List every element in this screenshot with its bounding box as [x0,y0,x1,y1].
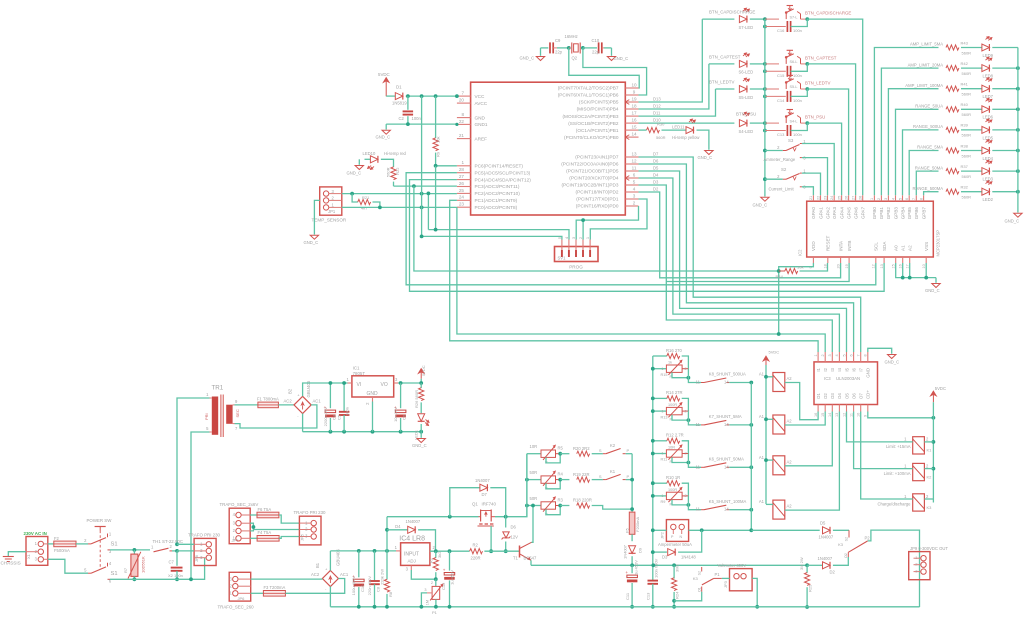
svg-text:C11: C11 [625,592,630,600]
svg-text:5VDC: 5VDC [421,365,426,376]
wire A1 coil K5 [766,503,773,505]
svg-text:GND_C: GND_C [885,360,900,365]
rectifier B1 GBU406 [322,571,338,587]
IC2 pin 6 GPB5 [908,195,910,201]
svg-text:JP3: JP3 [723,580,728,588]
wire trimmer R11 wiper loop [672,457,688,462]
svg-text:(PCINT21/OC0B/T1)PD5: (PCINT21/OC0B/T1)PD5 [566,169,619,174]
IC3 pin 13 O4 [838,405,840,412]
svg-text:I3: I3 [830,367,835,371]
IC2 pin 17 A2 [909,257,911,263]
svg-text:23: 23 [823,196,827,200]
svg-text:15: 15 [892,264,896,268]
wire K6_SHUNT_50MA to shunt output bus [729,466,751,468]
MCU pin 10 (PCINT7/XTAL2/TOSC2)PB7 [625,87,638,89]
power flag 5VDC for shunt relay coils [763,356,769,361]
svg-text:11: 11 [696,507,701,512]
trimmer R13 100R [653,410,667,412]
svg-text:Voltmeter 400V: Voltmeter 400V [718,563,747,568]
fuse F5 F200mA [629,512,635,534]
svg-text:1: 1 [461,160,464,165]
wire net D13 pin19 up to button row1 [639,19,703,102]
svg-text:14: 14 [828,413,832,417]
wire K3b P2 around to JP9 [868,530,920,607]
svg-text:1: 1 [661,452,663,456]
svg-text:I4: I4 [837,367,842,371]
svg-text:O1: O1 [697,587,701,592]
IC4 LR8 regulator [401,543,430,566]
svg-text:C9: C9 [555,38,561,43]
svg-text:1N4007: 1N4007 [406,519,421,524]
svg-text:D1: D1 [396,85,402,90]
svg-text:23: 23 [459,202,465,207]
svg-text:(PCINT19/OC2B/INT1)PD3: (PCINT19/OC2B/INT1)PD3 [561,183,618,188]
svg-text:GND_C: GND_C [347,171,362,176]
svg-text:6: 6 [633,172,636,177]
wire shunt output bus [750,383,752,531]
svg-text:19: 19 [631,96,637,101]
wire S3 pin1 to GPA3 [802,144,834,196]
connector SV1 PROG [555,247,599,262]
IC3 pin 9 CD+ [867,405,869,412]
svg-text:C13: C13 [646,592,651,600]
wire PROG pin1 long line to IC2 INTB [589,228,591,230]
wire PC5 SCL net [406,173,876,285]
svg-text:R8: R8 [388,591,393,597]
svg-text:IRF740: IRF740 [482,502,497,507]
svg-text:P: P [627,448,630,453]
svg-text:26: 26 [459,181,465,186]
svg-text:D9: D9 [638,547,643,553]
svg-text:R25: R25 [808,584,813,592]
LED S6-LED [709,63,735,65]
IC2 pin 7 GPB6 [915,195,917,201]
IC3 pin 8 GND [867,352,869,362]
svg-text:Charge/discharge: Charge/discharge [877,501,911,506]
svg-text:C7: C7 [169,560,175,565]
svg-text:AC1: AC1 [313,399,322,404]
wire R12 to trimmer pin2 [682,441,689,454]
wire trimmer R13 wiper loop [672,415,688,420]
IC3 pin 7 I7 [860,352,862,362]
MCU pin 19 (SCK/PCINT5)PB5 [625,101,638,103]
resistor R26 560R [420,383,422,388]
svg-text:D12: D12 [653,104,661,109]
wire IC3 CD+ pin9 to 5VDC bus [868,412,934,418]
svg-text:I6: I6 [851,367,856,371]
IC3 pin 11 O6 [853,405,855,412]
IC2 pin 21 GPA0 [812,195,814,201]
svg-text:IC4 LR8: IC4 LR8 [399,535,425,542]
resistor R22 560R [381,159,394,167]
svg-text:GND_C: GND_C [925,288,940,293]
resistor R19 22R [560,479,569,481]
capacitor C13 100n [763,129,767,133]
svg-text:14: 14 [631,132,637,137]
wire AMP_LIMIT_20MA to cathode bus [992,67,1018,69]
svg-text:AREF: AREF [475,136,488,141]
svg-text:Q1: Q1 [472,502,478,507]
svg-text:R9: R9 [661,500,666,504]
svg-text:100n: 100n [793,98,802,103]
svg-text:GND_C: GND_C [753,203,768,208]
svg-text:Limit: +100mA: Limit: +100mA [884,471,911,476]
svg-text:MCP23017SP: MCP23017SP [936,230,941,257]
wire center tap to JP5 pin2 [253,529,299,531]
svg-text:R13: R13 [661,415,668,419]
svg-text:R1: R1 [429,557,434,563]
wire A1 coil K6 [766,459,773,461]
svg-text:O2: O2 [844,553,848,558]
svg-text:BTN_CAPTEST: BTN_CAPTEST [709,54,741,59]
svg-text:R42: R42 [961,61,969,66]
svg-text:S4-L: S4-L [790,119,798,123]
svg-text:CHASSIS: CHASSIS [1,561,21,566]
svg-text:D3: D3 [653,180,659,185]
wire net D6 from MCU to IC3 [639,164,854,352]
svg-text:P1: P1 [432,610,438,615]
svg-text:F1 T800mA: F1 T800mA [257,397,279,402]
capacitor C6 10u 16V [400,383,402,408]
wire BTN_LEDTV output to IC2 [807,89,848,195]
svg-text:TR1: TR1 [212,385,224,392]
svg-text:1: 1 [661,409,663,413]
svg-text:S: S [599,474,602,479]
MCU pin 5 (PCINT19/OC2B/INT1)PD3 [625,184,638,186]
svg-text:11: 11 [696,380,701,385]
wire IC1 VO 5V rail [398,382,421,384]
svg-text:GPA1: GPA1 [818,207,823,219]
svg-text:O1: O1 [816,393,821,399]
wire trimmer R9 wiper loop [672,500,688,505]
svg-text:B1: B1 [315,562,320,568]
svg-text:R4: R4 [558,472,564,477]
wire crystal to XTAL2 pin 10 [569,48,639,88]
svg-text:K5_SHUNT_100MA: K5_SHUNT_100MA [709,499,747,504]
svg-text:1: 1 [661,367,663,371]
svg-text:F5: F5 [625,528,630,533]
svg-text:BC547: BC547 [524,556,537,561]
relay contact K1 [592,479,603,481]
IC2 pin 23 GPA2 [827,195,829,201]
svg-text:9: 9 [633,89,636,94]
svg-text:A2: A2 [787,459,793,464]
svg-text:I5: I5 [844,367,849,371]
svg-text:560R: 560R [962,195,972,200]
wire net D3 from MCU to IC3 [639,185,833,352]
svg-text:AVCC: AVCC [475,101,488,106]
svg-text:5: 5 [633,179,636,184]
wire live to JP8 pin1 [177,543,194,545]
IC2 pin 2 GPB1 [880,195,882,201]
wire low-voltage gnd rail [303,431,422,433]
svg-text:5VDC: 5VDC [378,72,390,77]
wire trimmer R15 wiper loop [672,372,688,377]
svg-text:S2: S2 [697,571,701,575]
svg-text:A2: A2 [787,419,793,424]
svg-text:14: 14 [724,422,729,427]
relay coil K2 Limit: +100mA [913,463,925,480]
svg-text:24: 24 [830,196,834,200]
svg-text:BTN_LEDTV: BTN_LEDTV [805,80,830,85]
svg-text:D5: D5 [653,166,659,171]
svg-text:K2: K2 [927,474,933,479]
svg-text:I2: I2 [823,367,828,371]
svg-text:RANGE_50UA: RANGE_50UA [915,104,943,109]
svg-text:GPB1: GPB1 [879,207,884,220]
IC3 pin 16 O1 [817,405,819,412]
resistor R2 220R [470,549,483,554]
MCU pin 17 (MOSI/OC2A/PCINT3)PB3 [625,115,638,117]
svg-text:AC1: AC1 [340,572,349,577]
svg-text:2200u 16V: 2200u 16V [323,407,328,427]
svg-text:GPA2: GPA2 [825,207,830,219]
push button BTN_LEDTV [785,83,787,89]
resistor R10 1R [653,482,667,484]
wire HV+ line to D5 [751,529,819,531]
svg-text:GPA5: GPA5 [846,207,851,219]
svg-text:1: 1 [814,354,818,356]
wire TH1 to JP8 pin2 [177,550,194,552]
wire button row BTN_CAPDISCHARGE [750,18,765,20]
svg-text:1k: 1k [668,361,672,365]
wire BTN_CAPTEST output to IC2 [807,64,855,195]
svg-text:1N4007: 1N4007 [475,478,490,483]
wire to switch K8_SHUNT_500UA [688,369,701,383]
ground GND_C at LED1 [420,432,422,438]
IC3 pin 14 O3 [831,405,833,412]
svg-text:GPA6: GPA6 [853,207,858,219]
IC2 pin 26 GPA5 [848,195,850,201]
svg-text:RANGE_50MA: RANGE_50MA [915,165,943,170]
svg-text:R22: R22 [395,167,400,175]
trimmer R3 50R [527,505,541,507]
svg-text:A2: A2 [787,504,793,509]
svg-text:SV1: SV1 [558,256,567,261]
svg-text:1N5819: 1N5819 [392,101,407,106]
svg-text:GND_C: GND_C [698,155,713,160]
svg-text:R5: R5 [558,446,564,451]
diode D3 1N4148 across meter [653,551,667,553]
MCU pin 15 (OC1A/PCINT1)PB1 [625,129,638,131]
IC3 ULN2003AN darlington array [814,362,878,405]
wire to switch K7_SHUNT_5MA [688,411,701,425]
wire K1 coil to 5VDC bus [924,441,933,443]
svg-text:18: 18 [631,103,637,108]
svg-text:AMP_LIMIT_100MA: AMP_LIMIT_100MA [905,83,943,88]
svg-text:GPA7: GPA7 [861,207,866,219]
resistor R43 560R [946,45,959,50]
svg-text:CD+: CD+ [866,390,871,399]
power flag 5VDC at IC3 [930,391,936,396]
svg-text:560R: 560R [962,174,972,179]
resistor R42 560R [946,66,959,71]
svg-text:22p: 22p [555,50,563,55]
wire TR1 pin5 down to mains neutral [191,432,210,579]
svg-text:5VDC: 5VDC [769,350,780,355]
svg-text:GND_C: GND_C [614,56,629,61]
wire button row BTN_CAPTEST [750,63,765,65]
svg-text:22p: 22p [592,50,600,55]
svg-text:F2: F2 [54,536,60,541]
svg-text:560R: 560R [386,167,391,177]
svg-text:S6-L: S6-L [790,60,798,64]
svg-text:LED2: LED2 [983,197,994,202]
wire net D7 from MCU to IC3 [639,157,861,352]
MCU pin 4 (PCINT18/INT0)PD2 [625,191,638,193]
svg-text:560R: 560R [962,50,972,55]
wire IC3 GND pin8 [868,348,892,354]
wire HV input rail [330,550,396,552]
capacitor C11 1u 450V [631,565,633,573]
LED LED2 [961,191,982,193]
svg-text:S2: S2 [781,167,787,172]
svg-text:PROG: PROG [569,265,583,270]
svg-text:R11: R11 [661,458,668,462]
svg-text:D5: D5 [820,521,826,526]
wire to switch K5_SHUNT_100MA [688,496,701,510]
svg-text:RANGE_500MA: RANGE_500MA [913,186,944,191]
wire K8_SHUNT_500UA to shunt output bus [729,382,751,384]
resistor R41 560R [946,86,959,91]
svg-text:220R: 220R [471,556,481,561]
MCU pin 16 (SS/OC1B/PCINT2)PB2 [625,122,638,124]
IC2 pin 19 INTB [848,257,850,263]
svg-text:(PCINT7/XTAL2/TOSC2)PB7: (PCINT7/XTAL2/TOSC2)PB7 [558,86,619,91]
svg-text:TRAFO_SEC_260: TRAFO_SEC_260 [218,605,255,610]
wire P1 pin1 to rail [435,599,437,606]
svg-text:Current_Limit: Current_Limit [769,186,795,191]
svg-text:IC1: IC1 [353,366,360,371]
resistor R20 2R2 [560,453,569,455]
svg-text:1N4007: 1N4007 [819,535,834,540]
svg-text:PC2(ADC2/PCINT10): PC2(ADC2/PCINT10) [475,191,521,196]
svg-text:1M: 1M [426,600,430,605]
wire K5_SHUNT_100MA to shunt output bus [729,509,751,511]
svg-text:1N4007: 1N4007 [623,544,628,559]
resistor R14 27R [653,397,667,399]
wire temp pin1 to MCU pin 23 [342,206,457,208]
wire PC2 net vertical [421,96,423,236]
svg-text:R3: R3 [558,498,564,503]
svg-text:IC3: IC3 [824,376,831,381]
capacitor C15 100n [763,69,767,73]
diode D7 1N4007 bypass [450,488,480,517]
svg-text:O4: O4 [837,393,842,399]
diode D4 1N4007 [387,529,408,531]
wire K2 to F5 bus [626,453,632,455]
relay coil K7 shunt relay [773,415,785,434]
svg-text:2: 2 [685,494,687,498]
svg-text:C14: C14 [777,98,785,103]
wire coil K8 A2 to IC3 O1 [785,383,818,420]
wire net RANGE_50MA [916,171,938,195]
svg-text:(PCINT20/XCK/T0)PD4: (PCINT20/XCK/T0)PD4 [569,176,619,181]
wire bottom HV- rail [330,606,919,608]
IC2 pin 24 GPA3 [833,195,835,201]
resistor R8 220k 2W bleeder [386,551,388,580]
svg-text:R2: R2 [473,543,479,548]
fuse F6 T5A [250,514,257,516]
svg-text:11: 11 [632,165,637,170]
wire PC3 row to pin 26 [394,185,457,187]
svg-text:D7: D7 [653,152,659,157]
svg-text:100u 400V: 100u 400V [351,576,356,596]
diode D5 1N4007 [823,527,831,534]
wire LR8 ADJ to divider [411,570,436,579]
svg-text:R18 220R: R18 220R [573,498,592,503]
wire to PROG pin5 [422,236,562,239]
svg-text:15: 15 [631,125,637,130]
chassis ground symbol [8,552,26,557]
svg-text:560R: 560R [656,135,666,140]
IC3 pin 5 I5 [846,352,848,362]
svg-text:4: 4 [835,354,839,356]
svg-text:20: 20 [459,98,465,103]
wire temp pin3 to MCU pin 25 [342,193,457,195]
connector JP3 Voltmeter 400V [730,569,753,591]
svg-text:Hi-temp yellow: Hi-temp yellow [672,135,700,140]
svg-text:GPB4: GPB4 [900,207,905,220]
svg-text:R32: R32 [961,185,969,190]
wire P1 pin3 to rail [427,592,432,594]
wire S2 pin3 to GPA0 [802,187,814,196]
svg-text:10: 10 [857,413,861,417]
capacitor C12 1u 450V [449,551,451,570]
varistor R7 10D561K [133,550,135,554]
wire T1 emitter HV minus line [531,564,807,566]
svg-text:Ampermeter 50uA: Ampermeter 50uA [658,542,692,547]
resistor R18 220R [560,505,569,507]
svg-text:GPB7: GPB7 [921,207,926,220]
IC3 pin 4 I4 [838,352,840,362]
MCU pin 6 (PCINT20/XCK/T0)PD4 [625,177,638,179]
trimmer R5 10R [527,453,541,455]
svg-text:RANGE_5MA: RANGE_5MA [917,145,943,150]
svg-text:K1: K1 [610,469,616,474]
wire mains neutral to S1 pole B [48,559,88,573]
svg-text:12V: 12V [511,535,519,540]
svg-text:P2: P2 [865,536,871,541]
svg-text:3: 3 [424,588,426,592]
wire F6 to JP5 pin1 [279,515,300,523]
svg-text:(PCINT16/RXD)PD0: (PCINT16/RXD)PD0 [576,204,619,209]
relay coil K8 shunt relay [773,373,785,392]
ground GND_C left of crystal [540,48,542,56]
svg-text:100R: 100R [668,403,677,407]
svg-text:C10: C10 [360,584,365,592]
switch S2 Current_Limit [765,178,783,180]
resistor R39 560R [946,127,959,132]
trimmer P1 1M [435,579,437,586]
svg-text:11: 11 [696,464,701,469]
svg-text:12: 12 [842,413,846,417]
svg-text:O5: O5 [844,393,849,399]
svg-text:O7: O7 [859,393,864,399]
svg-text:(SCK/PCINT5)PB5: (SCK/PCINT5)PB5 [579,100,619,105]
svg-text:S3: S3 [788,138,794,143]
MCU pin 8 GND [457,117,471,119]
svg-text:50R: 50R [530,496,538,501]
svg-text:220n 400V: 220n 400V [367,576,372,596]
wire RANGE_500MA to cathode bus [992,191,1018,193]
svg-text:INPUT: INPUT [404,552,419,558]
svg-text:S1: S1 [111,542,118,548]
zener diode D6 12V [505,517,507,528]
trimmer R11 10R [653,453,667,455]
svg-text:7: 7 [461,91,464,96]
svg-text:GPB3: GPB3 [893,207,898,220]
